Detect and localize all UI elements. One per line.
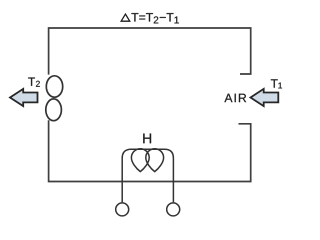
heater H: coil loop right bbox=[146, 149, 164, 172]
heater H: arch with leads crossing bottom wire bbox=[122, 149, 173, 202]
label AIR bbox=[224, 94, 246, 102]
heater H: coil loop left bbox=[131, 149, 149, 172]
label delta-T equation text T=T2-T1 bbox=[131, 13, 178, 23]
blower/fan ellipse upper (T2 outlet) bbox=[46, 76, 62, 97]
terminal: heater supply left bbox=[116, 203, 129, 216]
arrow: AIR inlet T1 (block arrow left) bbox=[251, 89, 279, 106]
wire: lower AIR stub, right drop, bottom run, left riser to blower bbox=[49, 120, 251, 181]
label T1 bbox=[271, 79, 282, 88]
label delta-T equation: triangle glyph bbox=[121, 14, 130, 21]
arrow: T2 air outlet (block arrow left) bbox=[10, 89, 38, 106]
terminal: heater supply right bbox=[167, 203, 180, 216]
blower/fan ellipse lower (T2 outlet) bbox=[46, 99, 62, 121]
wire: left riser, top run, right drop to upper AIR stub bbox=[49, 28, 251, 75]
label H bbox=[143, 134, 151, 144]
label T2 bbox=[28, 78, 40, 87]
